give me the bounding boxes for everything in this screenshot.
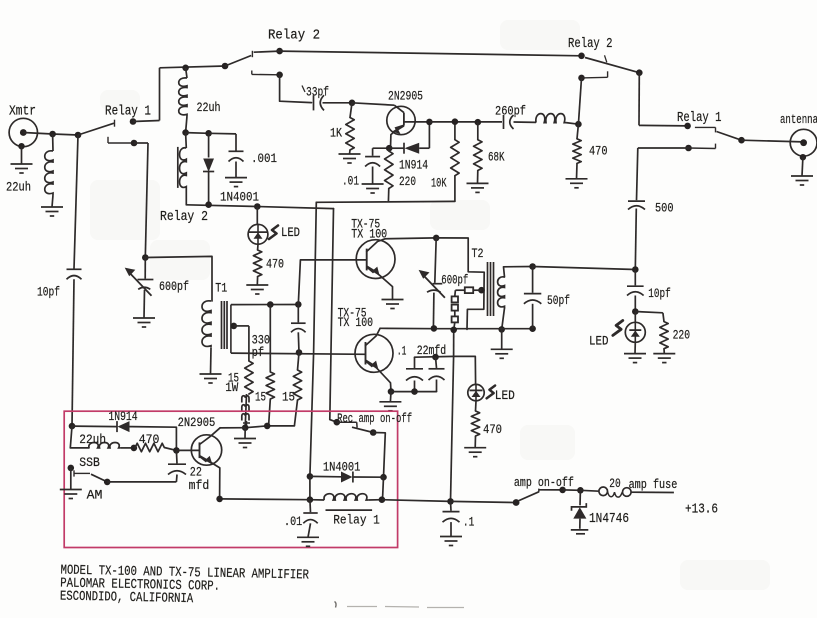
svg-text:500: 500	[655, 201, 674, 216]
svg-text:22uh: 22uh	[79, 432, 106, 447]
ground	[571, 529, 589, 531]
wire ground stub	[244, 428, 246, 439]
junction collector node	[433, 235, 440, 242]
wire	[514, 121, 537, 123]
ground	[382, 299, 404, 301]
relay Relay 1 coil	[310, 499, 324, 501]
svg-text:1N4001: 1N4001	[323, 459, 361, 474]
transformer T2 core	[487, 262, 489, 316]
wire arm to antenna	[742, 140, 803, 142]
capacitor .001	[235, 134, 237, 151]
svg-text:AM: AM	[87, 488, 103, 503]
svg-text:1K: 1K	[330, 126, 342, 141]
wire emitter bottom rail	[316, 200, 455, 203]
svg-text:600pf: 600pf	[159, 279, 189, 294]
diode 1N4001 relay snubber	[310, 475, 341, 477]
svg-text:.1: .1	[397, 344, 407, 359]
wire	[257, 244, 259, 250]
wire collector rail to 260pf	[429, 121, 502, 123]
ground	[133, 317, 155, 319]
relay Relay 2 coil	[185, 133, 188, 148]
svg-text:220: 220	[673, 328, 691, 343]
svg-text:Relay 1: Relay 1	[333, 513, 380, 528]
transformer T1 core	[221, 301, 223, 349]
LED relay2 indicator	[256, 207, 258, 225]
transformer T1 primary	[202, 301, 211, 348]
wire supply rail	[220, 498, 310, 501]
variable capacitor 600pf tune	[144, 258, 146, 279]
svg-text:1N914: 1N914	[108, 409, 137, 424]
svg-text:22uh: 22uh	[6, 180, 31, 195]
svg-text:Relay 1: Relay 1	[105, 105, 151, 120]
svg-text:2N2905: 2N2905	[178, 415, 216, 430]
svg-text:22uh: 22uh	[197, 100, 221, 115]
transformer T1 secondary	[230, 305, 232, 354]
relay Relay 2 right pivot	[578, 53, 585, 60]
junction	[182, 129, 189, 136]
junction	[575, 121, 582, 128]
variable capacitor 600pf plate tune	[435, 238, 436, 283]
junction secondary tap	[231, 323, 238, 330]
inductor 22uh keying	[89, 443, 121, 448]
capacitor 260pf	[503, 115, 505, 129]
wire	[475, 401, 478, 411]
svg-text:33pf: 33pf	[306, 85, 329, 100]
svg-text:T2: T2	[472, 246, 484, 261]
wire bead chain down to supply rail	[454, 323, 455, 330]
title text	[60, 564, 309, 610]
relay Relay 2 coil bar	[177, 147, 179, 188]
capacitor 10pf series	[67, 268, 82, 270]
flash marks	[269, 226, 278, 240]
capacitor interstage	[297, 304, 299, 322]
transformer T2 primary tap beads	[478, 287, 485, 294]
svg-text:LED: LED	[589, 334, 609, 349]
capacitor 500	[628, 200, 645, 202]
ground	[339, 153, 361, 155]
inductor output coil	[536, 114, 566, 123]
switch SSB/AM	[68, 465, 75, 472]
junction base node	[173, 447, 180, 454]
transistor TX-75 lower Q3	[355, 334, 393, 372]
connector Xmtr coax jack	[9, 118, 37, 146]
junction	[632, 266, 639, 273]
relay Relay 2 right arm	[585, 58, 639, 73]
wire T2 top rail to 10pf	[533, 267, 636, 270]
relay Relay 2 left arm	[225, 56, 251, 67]
capacitor 22mfd bypass	[436, 357, 437, 368]
wire	[389, 392, 392, 402]
wire	[373, 433, 385, 478]
junction 1N914 row	[69, 423, 76, 430]
diode 1N4001 relay clamp	[208, 133, 210, 157]
svg-text:ESCONDIDO, CALIFORNIA: ESCONDIDO, CALIFORNIA	[60, 590, 194, 608]
resistor 1K	[350, 103, 352, 118]
svg-text:+13.6: +13.6	[685, 503, 718, 518]
wire secondary bottom rail / base feed Q3	[231, 353, 366, 354]
resistor 220	[388, 148, 390, 151]
capacitor .01 keying	[309, 500, 312, 513]
wire collector row to beads	[220, 427, 245, 429]
wire top rail	[254, 51, 280, 52]
svg-text:220: 220	[399, 174, 416, 189]
wire relay1 lower contact to 600pf	[134, 142, 148, 144]
svg-text:antenna: antenna	[780, 112, 817, 127]
relay Relay 1 left upper contact	[130, 118, 137, 125]
capacitor 10pf output	[634, 270, 636, 286]
suppressor beads	[245, 394, 246, 428]
svg-text:Rec amp on-off: Rec amp on-off	[337, 411, 412, 426]
relay Relay 1 left arm	[78, 123, 114, 135]
junction collector node	[426, 119, 433, 126]
transistor 2N2905 keying Q4	[191, 435, 221, 465]
svg-text:22mfd: 22mfd	[417, 343, 447, 358]
svg-text:1N4746: 1N4746	[589, 512, 629, 527]
svg-text:SSB: SSB	[79, 455, 100, 470]
junction	[632, 308, 639, 315]
svg-text:LED: LED	[495, 388, 515, 403]
transistor TX-75 upper Q2	[356, 240, 395, 279]
svg-text:2N2905: 2N2905	[388, 89, 423, 104]
svg-text:15: 15	[282, 391, 295, 405]
svg-text:.01: .01	[284, 514, 302, 529]
ground	[246, 284, 268, 286]
svg-text:1N4001: 1N4001	[220, 190, 259, 205]
svg-text:10pf: 10pf	[37, 285, 60, 300]
switch amp on-off	[513, 499, 520, 506]
inductor 22uh input choke	[52, 134, 54, 151]
wire to 22uh row	[70, 426, 89, 448]
wire collector rail to T2	[436, 238, 484, 330]
ground	[624, 353, 646, 355]
ground	[653, 353, 675, 355]
ground	[60, 489, 82, 491]
diode 1N914 feedback	[389, 147, 403, 149]
ground	[297, 536, 319, 538]
wire keying line A	[310, 202, 316, 476]
wire output rail bottom	[436, 328, 532, 330]
ground	[11, 163, 33, 165]
svg-text:Xmtr: Xmtr	[9, 105, 36, 120]
junction	[49, 131, 56, 138]
svg-text:TX 100: TX 100	[338, 315, 374, 330]
scan artifact bottom dashes	[347, 607, 464, 608]
node top rail start	[276, 48, 283, 55]
capacitor .1 supply	[450, 501, 453, 510]
relay Relay 1 right arm	[717, 132, 742, 141]
junction	[307, 496, 314, 503]
fuse 20 amp	[580, 489, 599, 492]
svg-text:.001: .001	[251, 151, 277, 166]
wire AM contact to 22mfd	[107, 481, 176, 483]
wire secondary top rail	[231, 304, 299, 306]
svg-text:1W: 1W	[225, 381, 238, 395]
ground	[491, 348, 513, 350]
resistor 15 second	[269, 305, 271, 372]
svg-text:50pf: 50pf	[547, 293, 570, 308]
inductor 22uh relay2 branch	[186, 68, 187, 78]
capacitor 50pf	[529, 263, 536, 270]
relay Relay 2 right lower contact	[578, 75, 585, 82]
svg-text:68K: 68K	[488, 150, 505, 165]
svg-text:470: 470	[483, 422, 502, 437]
wire up to relay2 row	[159, 68, 161, 121]
resistor 15 third	[298, 353, 300, 371]
svg-text:Relay 2: Relay 2	[160, 210, 208, 225]
wire relay2R lower to junction	[578, 78, 581, 124]
junction emitter node	[386, 145, 393, 152]
svg-text:10pf: 10pf	[648, 286, 671, 301]
junction	[498, 326, 505, 333]
svg-text:600pf: 600pf	[441, 273, 468, 288]
capacitor .1 bypass	[414, 357, 416, 368]
relay Relay 2 left lower contact	[251, 71, 253, 75]
wire resistor bottom rail	[220, 426, 294, 428]
ground	[200, 373, 222, 375]
svg-text:T1: T1	[215, 281, 227, 296]
svg-text:pf: pf	[252, 345, 265, 360]
wire	[501, 329, 503, 349]
junction	[131, 445, 138, 452]
resistor 470 keying	[135, 443, 164, 451]
wire relay2 left common	[160, 66, 226, 68]
resistor 470 termination	[577, 124, 578, 139]
transistor 2N2905 driver Q1	[387, 106, 415, 134]
relay Relay 1 right upper contact	[684, 123, 691, 130]
capacitor 33pf	[313, 95, 315, 110]
junction	[431, 325, 438, 332]
wire keying drop right	[330, 209, 337, 423]
resistor 220 output	[635, 312, 663, 313]
LED rec amp indicator	[454, 356, 476, 384]
svg-text:LED: LED	[281, 226, 300, 240]
relay Relay 1 right lower contact	[685, 145, 692, 152]
wire base feed Q2	[298, 260, 366, 305]
svg-text:470: 470	[589, 144, 608, 159]
ground	[225, 177, 247, 179]
junction	[380, 474, 387, 481]
wire bottom rail left (relay2 coil to keying)	[186, 205, 333, 209]
relay Relay 1 left lower contact bracket	[107, 137, 109, 143]
svg-text:mfd: mfd	[189, 478, 210, 493]
switch Rec amp on-off	[334, 419, 341, 426]
ground	[234, 438, 256, 440]
wire	[186, 132, 209, 135]
wire to 33pf	[280, 75, 312, 103]
wire	[634, 342, 636, 353]
junction	[349, 100, 356, 107]
wire RX path down	[638, 147, 689, 149]
highlight box	[64, 411, 397, 547]
ground	[440, 536, 462, 538]
ground	[464, 447, 486, 449]
wire bypass bottom	[391, 391, 437, 393]
resistor 10K	[454, 176, 456, 202]
ghost bleedthrough	[90, 180, 160, 240]
wire antenna shield	[801, 157, 804, 176]
svg-text:1N914: 1N914	[399, 158, 428, 173]
diode 1N914 keying	[72, 425, 117, 428]
junction 600pf top	[142, 254, 149, 261]
ground	[362, 183, 384, 185]
ground	[566, 178, 588, 180]
svg-text:15: 15	[255, 391, 266, 405]
wire relay2R common down	[638, 73, 640, 126]
svg-text:10K: 10K	[431, 176, 447, 191]
junction emitter node	[388, 388, 395, 395]
svg-text:amp fuse: amp fuse	[629, 477, 678, 492]
svg-text:.01: .01	[342, 174, 359, 189]
resistor 470 rec amp	[471, 411, 479, 436]
svg-text:260pf: 260pf	[495, 104, 526, 119]
wire left vertical from relay1	[74, 135, 78, 269]
capacitor .01	[373, 147, 390, 149]
ground	[791, 175, 813, 177]
wire to T1	[145, 256, 212, 301]
ground	[379, 401, 401, 403]
ground	[41, 206, 63, 208]
svg-text:20: 20	[609, 476, 620, 491]
resistor 15 1W	[234, 325, 249, 327]
svg-text:.1: .1	[463, 515, 475, 530]
connector antenna coax jack	[790, 129, 817, 156]
wire switch common to ground	[70, 468, 72, 490]
svg-text:470: 470	[266, 257, 284, 272]
wire Xmtr to relay	[23, 133, 52, 135]
svg-text:Relay 2: Relay 2	[268, 29, 320, 44]
junction	[307, 473, 314, 480]
transformer T2 secondary	[498, 277, 505, 308]
svg-text:Relay 2: Relay 2	[568, 37, 613, 52]
svg-text:Relay 1: Relay 1	[677, 111, 722, 126]
capacitor 22mfd keying	[175, 450, 178, 463]
LED output indicator	[634, 312, 636, 323]
diode 1N4746 zener	[579, 490, 581, 505]
svg-text:470: 470	[139, 432, 160, 447]
wire coax shield down	[21, 146, 23, 164]
flash marks	[613, 321, 623, 336]
ground	[467, 182, 489, 184]
wire emitter bypass rail	[415, 355, 454, 358]
resistor 68K	[477, 122, 479, 140]
resistor 470 LED	[253, 250, 261, 277]
